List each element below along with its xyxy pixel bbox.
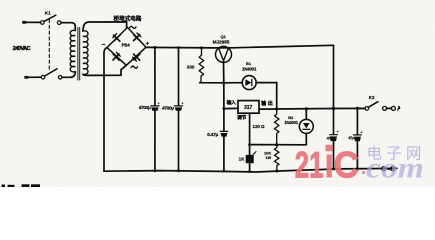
svg-text:4700μ: 4700μ bbox=[162, 105, 174, 111]
potentiometer 1K bbox=[246, 145, 256, 172]
wire primary bottom bbox=[62, 72, 75, 78]
node pot ground bbox=[248, 170, 251, 173]
node adj left bbox=[248, 143, 251, 146]
svg-text:输出: 输出 bbox=[261, 100, 274, 107]
svg-text:Q1: Q1 bbox=[221, 34, 227, 39]
svg-text:–: – bbox=[102, 41, 106, 48]
svg-text:C: C bbox=[334, 143, 359, 185]
svg-text:240VAC: 240VAC bbox=[13, 46, 31, 52]
bridge diode D-topleft bbox=[113, 34, 120, 41]
node resistor 330 top bbox=[200, 46, 203, 49]
svg-text:317: 317 bbox=[244, 105, 253, 111]
wire input node down bbox=[223, 83, 225, 109]
watermark 21IC bbox=[295, 143, 359, 185]
bridge rectifier PB4 (diamond) bbox=[107, 27, 146, 65]
diode B2 bbox=[299, 109, 313, 145]
label ~ top bbox=[130, 26, 136, 28]
wire primary top bbox=[61, 23, 75, 31]
svg-text:47μ: 47μ bbox=[348, 136, 353, 140]
diode B1 1N4001 bbox=[224, 76, 277, 90]
output terminal bottom bbox=[382, 167, 395, 171]
caption fragment bottom-left bbox=[2, 184, 41, 187]
bridge diode D-bottomright bbox=[133, 54, 140, 61]
svg-text:1N4001: 1N4001 bbox=[284, 120, 298, 125]
capacitor C1 4700u bbox=[151, 48, 159, 171]
svg-text:1K: 1K bbox=[239, 156, 245, 161]
svg-text:1W: 1W bbox=[265, 155, 271, 160]
node base junction bbox=[222, 81, 225, 84]
output terminal top bbox=[383, 106, 400, 110]
capacitor 0.47u bbox=[220, 109, 228, 172]
resistor 10K bbox=[275, 145, 279, 171]
transformer T1 secondary winding bbox=[83, 31, 88, 75]
resistor 330 bbox=[199, 48, 224, 83]
switch K1 pole 2 bbox=[41, 69, 62, 79]
node drop-output bbox=[332, 107, 335, 110]
wire top rail drop bbox=[333, 45, 335, 108]
watermark dot bbox=[362, 171, 365, 174]
svg-text:330: 330 bbox=[187, 65, 195, 70]
output rail bbox=[259, 107, 365, 110]
svg-text:0.47μ: 0.47μ bbox=[207, 132, 218, 137]
svg-text:47μ: 47μ bbox=[327, 137, 332, 141]
node C4 ground bbox=[356, 167, 359, 170]
node output-B1 bbox=[275, 107, 278, 110]
svg-text:1N4001: 1N4001 bbox=[242, 66, 257, 71]
node 0.47u ground bbox=[222, 170, 225, 173]
node cap1 ground bbox=[153, 169, 156, 172]
node cap2 ground bbox=[177, 169, 180, 172]
wire diode B1 to output rail bbox=[276, 83, 278, 109]
wire 317 adj down bbox=[249, 113, 251, 144]
svg-text:PB4: PB4 bbox=[122, 42, 131, 47]
svg-text:输入: 输入 bbox=[227, 99, 236, 106]
node output-B2 bbox=[305, 107, 308, 110]
AC input terminal top bbox=[22, 21, 40, 24]
switch K2 bbox=[357, 102, 378, 111]
wire secondary bottom to bridge bbox=[83, 65, 126, 75]
svg-text:K2: K2 bbox=[369, 95, 375, 100]
node adj middle bbox=[275, 143, 278, 146]
node cap1 top bbox=[153, 46, 156, 49]
transistor Q1 MJ2955 bbox=[216, 46, 232, 82]
transformer core bbox=[78, 28, 80, 81]
svg-text:21: 21 bbox=[295, 143, 324, 185]
svg-text:120 Ω: 120 Ω bbox=[253, 124, 266, 129]
ground rail bbox=[104, 168, 397, 172]
capacitor C2 4700u bbox=[175, 48, 183, 171]
transformer T1 primary winding bbox=[70, 30, 75, 72]
resistor 120 ohm bbox=[275, 109, 279, 145]
wire input node to regulator bbox=[224, 107, 238, 109]
node 10K ground bbox=[275, 170, 278, 173]
node C3 ground bbox=[332, 167, 335, 170]
svg-text:调节: 调节 bbox=[237, 114, 246, 121]
adj rail bbox=[250, 144, 307, 146]
capacitor C3 bbox=[330, 109, 338, 169]
AC input terminal bottom bbox=[24, 76, 41, 79]
regulator U1 317 bbox=[238, 101, 259, 114]
bridge diode D-topright bbox=[134, 33, 141, 41]
positive top rail bbox=[146, 45, 334, 48]
svg-text:K1: K1 bbox=[45, 11, 51, 16]
wire bridge negative to ground rail bbox=[104, 48, 107, 172]
node 317 input bbox=[222, 107, 225, 110]
svg-text:4700μ: 4700μ bbox=[139, 105, 151, 111]
svg-text:桥堆式电路: 桥堆式电路 bbox=[114, 14, 142, 22]
svg-text:com: com bbox=[366, 152, 424, 185]
wire secondary top bbox=[83, 22, 127, 31]
bridge diode D-bottomleft bbox=[113, 52, 120, 60]
capacitor C4 bbox=[354, 108, 362, 168]
node cap2 top bbox=[177, 46, 180, 49]
switch K1 pole 1 bbox=[41, 15, 62, 24]
node output-C4 bbox=[356, 107, 359, 110]
switch K1 mechanical link (dashed) bbox=[48, 20, 50, 72]
svg-text:MJ2955: MJ2955 bbox=[213, 39, 230, 45]
label ~ bottom bbox=[131, 66, 137, 68]
